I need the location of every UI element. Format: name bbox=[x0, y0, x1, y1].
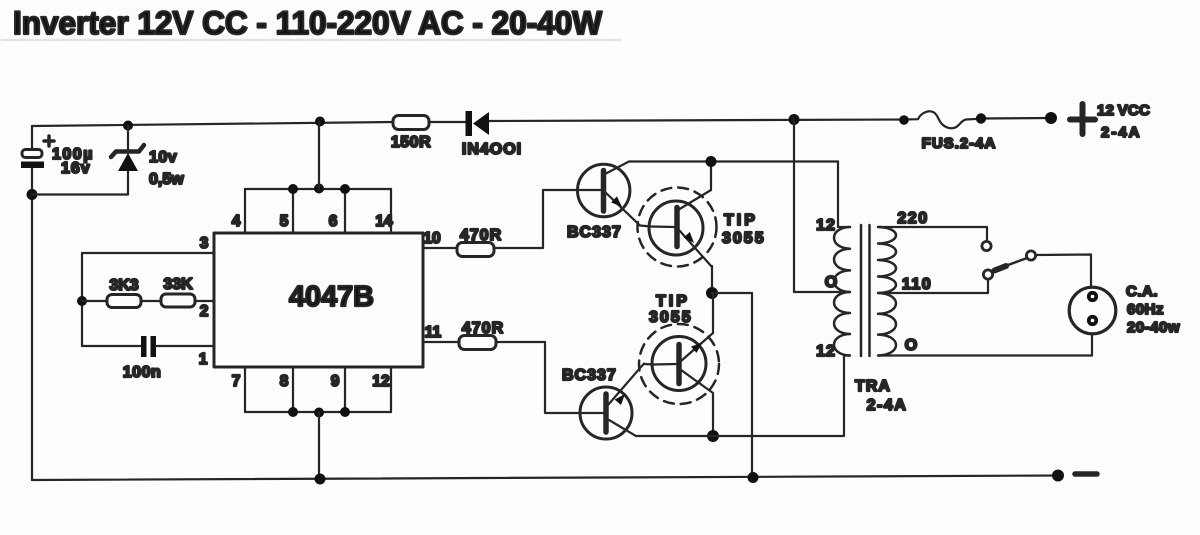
svg-text:3055: 3055 bbox=[649, 309, 693, 326]
label Q2 3055 bbox=[722, 230, 766, 247]
label pin 9 bbox=[331, 373, 340, 390]
node bottom bus center bbox=[314, 408, 324, 418]
svg-text:11: 11 bbox=[425, 324, 442, 341]
label T1 primary 12 top bbox=[816, 217, 836, 234]
label pin 4 bbox=[232, 213, 241, 230]
node junction rail-centertap feed bbox=[789, 114, 800, 125]
label R2 3K3 bbox=[109, 277, 138, 294]
label Q4 BC337 bbox=[562, 367, 617, 384]
label T1 TRA bbox=[855, 378, 891, 395]
wire top rail between 150R and 1N4001 bbox=[429, 121, 466, 123]
resistor R2 3K3 bbox=[107, 295, 141, 308]
node junction cap-zener bottom bbox=[27, 189, 38, 200]
svg-text:9: 9 bbox=[331, 373, 340, 390]
switch contact 220 bbox=[982, 241, 991, 250]
svg-text:12: 12 bbox=[372, 373, 389, 390]
wire emitters to ground elbow bbox=[712, 293, 752, 478]
resistor R1 150R bbox=[393, 116, 429, 130]
label T1 2-4A bbox=[867, 397, 908, 414]
svg-text:470R: 470R bbox=[462, 320, 504, 337]
transistor Q2 TIP3055 top bbox=[638, 188, 717, 268]
label Q3 3055 bbox=[649, 309, 693, 326]
wire pin 3 bbox=[82, 252, 214, 254]
svg-text:O: O bbox=[825, 274, 837, 291]
wire IC ground vertical bbox=[318, 412, 320, 479]
label C1 value 16v bbox=[61, 160, 91, 177]
svg-text:BC337: BC337 bbox=[562, 367, 617, 384]
wire IC supply feed vertical bbox=[318, 122, 320, 190]
svg-text:3055: 3055 bbox=[722, 230, 766, 247]
wire left vertical branch bbox=[31, 126, 33, 480]
svg-text:10v: 10v bbox=[149, 149, 177, 166]
label 2-4A bbox=[1101, 124, 1142, 141]
label pin 14 bbox=[375, 213, 393, 230]
svg-text:33K: 33K bbox=[163, 276, 193, 293]
label R4 470R bbox=[460, 227, 502, 244]
capacitor C2 100n bbox=[141, 336, 156, 357]
resistor R4 470R bbox=[457, 243, 494, 257]
wire switch to socket bbox=[1036, 255, 1091, 289]
node bottom bus pin9 bbox=[340, 407, 350, 417]
wire top rail fuse to terminal bbox=[981, 117, 1051, 120]
node +12V terminal bbox=[1045, 112, 1057, 124]
socket J1 outline bbox=[1069, 287, 1116, 334]
label Q2 TIP bbox=[724, 212, 758, 229]
transformer T1 secondary winding bbox=[878, 227, 896, 356]
wire IC bottom bus bbox=[245, 411, 391, 413]
svg-text:10: 10 bbox=[423, 230, 440, 247]
transistor Q1 BC337 top bbox=[578, 162, 652, 227]
wire top collector rail to transformer bbox=[629, 160, 838, 162]
label T1 secondary 220 bbox=[897, 210, 928, 227]
op IC U1 4047B box bbox=[214, 233, 423, 367]
transistor Q3 TIP3055 bottom bbox=[639, 324, 719, 404]
svg-text:Inverter 12V CC - 110-220V AC: Inverter 12V CC - 110-220V AC - 20-40W bbox=[13, 5, 603, 41]
wire pin 12 stub bbox=[390, 367, 392, 412]
label J1 20-40w bbox=[1127, 319, 1180, 336]
node bottom rail IC ground bbox=[315, 474, 326, 485]
svg-text:2-4A: 2-4A bbox=[1101, 124, 1142, 141]
svg-text:470R: 470R bbox=[460, 227, 502, 244]
fuse F1 bbox=[904, 111, 981, 128]
minus symbol bbox=[1075, 471, 1097, 477]
node fuse left lead bbox=[899, 115, 909, 125]
wire secondary 110 lead bbox=[878, 280, 988, 293]
wire R2-R3 bbox=[141, 300, 161, 302]
title bbox=[13, 5, 603, 41]
transformer T1 primary winding bbox=[834, 227, 850, 356]
wire R5 to Q4 base bbox=[496, 342, 603, 413]
svg-text:12 VCC: 12 VCC bbox=[1097, 102, 1150, 119]
wire R4 to Q1 base bbox=[494, 190, 601, 248]
wire pin 14 stub bbox=[390, 189, 392, 233]
svg-text:16v: 16v bbox=[61, 160, 91, 177]
svg-text:110: 110 bbox=[902, 276, 932, 293]
label pin 5 bbox=[280, 213, 289, 230]
wire pin 7 stub bbox=[244, 367, 246, 412]
label J1 C.A. bbox=[1126, 283, 1158, 300]
socket J1 pin bottom bbox=[1087, 315, 1098, 326]
label C2 100n bbox=[123, 364, 161, 381]
wire center tap feed bbox=[794, 120, 850, 293]
zener diode D2 10v 0.5w bbox=[111, 126, 144, 195]
label F1 FUS.2-4A bbox=[922, 135, 997, 152]
wire pin 6 stub bbox=[344, 189, 346, 233]
diode D1 1N4001 bbox=[466, 111, 490, 136]
label D2 value 10v bbox=[149, 149, 177, 166]
svg-text:C.A.: C.A. bbox=[1126, 283, 1158, 300]
wire bottom rail bbox=[32, 476, 1058, 481]
label C1 value 100u bbox=[52, 146, 94, 163]
switch contact 110 bbox=[983, 270, 992, 279]
label pin 8 bbox=[280, 373, 289, 390]
label pin 6 bbox=[329, 213, 338, 230]
svg-text:2: 2 bbox=[200, 303, 209, 320]
label Q3 TIP bbox=[656, 293, 690, 310]
svg-text:14: 14 bbox=[375, 213, 393, 230]
capacitor C1 100u 16v bbox=[21, 136, 54, 168]
svg-text:20-40w: 20-40w bbox=[1127, 319, 1180, 336]
svg-text:4047B: 4047B bbox=[289, 281, 374, 313]
node junction rail-zener bbox=[123, 121, 133, 131]
node top bus pin6 bbox=[340, 184, 350, 194]
wire Q2 emitter vertical bbox=[711, 266, 713, 293]
label R5 470R bbox=[462, 320, 504, 337]
svg-text:12: 12 bbox=[816, 343, 836, 360]
wire pin 4 stub bbox=[244, 189, 246, 233]
wire secondary 220 lead bbox=[878, 227, 987, 241]
wire pin 2 right bbox=[195, 300, 214, 302]
svg-text:TRA: TRA bbox=[855, 378, 891, 395]
label pin 2 bbox=[200, 303, 209, 320]
wire transformer primary top terminal bbox=[838, 162, 850, 228]
wire top rail diode to fuse bbox=[489, 120, 904, 122]
label T1 secondary O bbox=[905, 337, 917, 354]
switch SW1 common contact bbox=[1026, 251, 1035, 260]
wire Q3 collector vertical bbox=[712, 394, 714, 436]
transformer T1 core bbox=[861, 225, 870, 356]
svg-text:1: 1 bbox=[199, 351, 208, 368]
svg-text:3K3: 3K3 bbox=[109, 277, 138, 294]
wire top rail left segment bbox=[32, 122, 393, 126]
svg-text:IN4OOI: IN4OOI bbox=[462, 141, 522, 158]
svg-text:3: 3 bbox=[200, 235, 209, 252]
wire zener bottom horizontal bbox=[32, 193, 128, 195]
label T1 primary 12 bottom bbox=[816, 343, 836, 360]
svg-text:100n: 100n bbox=[123, 364, 161, 381]
switch SW1 lever bbox=[992, 258, 1027, 271]
label D1 value 1N4001 bbox=[462, 141, 522, 158]
label R1 value 150R bbox=[391, 134, 431, 151]
label pin 1 bbox=[199, 351, 208, 368]
transistor Q4 BC337 bottom bbox=[580, 364, 653, 440]
svg-text:TIP: TIP bbox=[724, 212, 758, 229]
label pin 12 bbox=[372, 373, 389, 390]
node top bus pin5 bbox=[288, 184, 298, 194]
svg-text:7: 7 bbox=[232, 373, 241, 390]
node top collector junction bbox=[706, 156, 717, 167]
wire pin 2 left bbox=[82, 300, 107, 302]
label pin 10 bbox=[423, 230, 440, 247]
wire pin 11 bbox=[423, 341, 459, 343]
title underline artifact bbox=[2, 39, 620, 42]
label Q1 BC337 bbox=[567, 224, 622, 241]
wire pin 8 stub bbox=[292, 367, 294, 412]
node bottom rail emitters ground bbox=[748, 472, 759, 483]
svg-text:BC337: BC337 bbox=[567, 224, 622, 241]
wire pin 10 bbox=[423, 247, 457, 249]
node fuse right lead bbox=[976, 113, 986, 123]
node top bus feed bbox=[314, 184, 324, 194]
label pin 11 bbox=[425, 324, 442, 341]
wire IC top bus bbox=[245, 188, 391, 190]
svg-text:12: 12 bbox=[816, 217, 836, 234]
label 12VCC bbox=[1097, 102, 1150, 119]
svg-text:6: 6 bbox=[329, 213, 338, 230]
label T1 primary O bbox=[825, 274, 837, 291]
label pin 7 bbox=[232, 373, 241, 390]
resistor R3 33K bbox=[161, 294, 195, 307]
wire pin 5 stub bbox=[292, 189, 294, 233]
svg-text:0,5w: 0,5w bbox=[149, 171, 184, 188]
svg-text:220: 220 bbox=[897, 210, 928, 227]
resistor R5 470R bbox=[459, 336, 496, 350]
svg-text:8: 8 bbox=[280, 373, 289, 390]
label J1 60Hz bbox=[1127, 301, 1164, 318]
node emitters junction bbox=[706, 287, 718, 299]
svg-text:5: 5 bbox=[280, 213, 289, 230]
label D2 value 0,5w bbox=[149, 171, 184, 188]
plus symbol bbox=[1070, 104, 1095, 134]
node junction rail-IC feed bbox=[315, 117, 325, 127]
wire Q3 emitter vertical bbox=[712, 293, 714, 333]
svg-text:4: 4 bbox=[232, 213, 241, 230]
wire pin 1 left bbox=[82, 345, 141, 347]
label T1 secondary 110 bbox=[902, 276, 932, 293]
node bottom bus pin8 bbox=[288, 407, 298, 417]
wire pin 9 stub bbox=[344, 367, 346, 412]
svg-text:O: O bbox=[905, 337, 917, 354]
node bottom collector junction bbox=[707, 430, 719, 442]
svg-text:TIP: TIP bbox=[656, 293, 690, 310]
svg-text:150R: 150R bbox=[391, 134, 431, 151]
node minus terminal bbox=[1052, 470, 1064, 482]
socket J1 pin top bbox=[1087, 291, 1098, 302]
wire bottom collector rail to transformer bbox=[636, 356, 850, 437]
label R3 33K bbox=[163, 276, 193, 293]
svg-text:2-4A: 2-4A bbox=[867, 397, 908, 414]
label pin 3 bbox=[200, 235, 209, 252]
wire pin 1 right bbox=[156, 345, 214, 347]
wire Q2 collector vertical bbox=[710, 162, 712, 190]
svg-text:FUS.2-4A: FUS.2-4A bbox=[922, 135, 997, 152]
svg-text:60Hz: 60Hz bbox=[1127, 301, 1164, 318]
label U1 4047B bbox=[289, 281, 374, 313]
wire socket bottom to secondary O bbox=[878, 334, 1092, 356]
node RC loop junction bbox=[77, 296, 87, 306]
wire RC loop left vertical bbox=[81, 253, 83, 346]
